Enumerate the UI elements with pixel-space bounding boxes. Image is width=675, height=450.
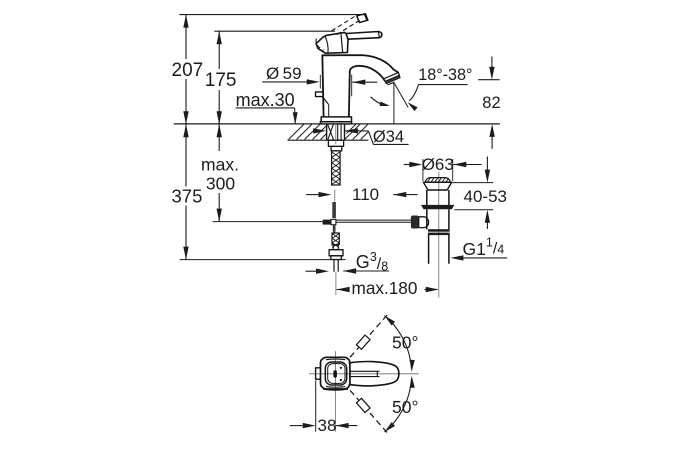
shank right edge	[344, 124, 346, 140]
shank inner lines	[337, 124, 339, 140]
svg-text:50°: 50°	[392, 397, 418, 417]
diam63 left ext	[422, 159, 424, 181]
G38 right arrow	[343, 268, 356, 273]
G114 arrow	[450, 255, 463, 260]
max30 leader line	[294, 108, 297, 124]
lower arc arrowhead at centerline	[410, 376, 415, 388]
supply centerline upper	[335, 121, 337, 144]
diam63 right arrow	[453, 162, 466, 167]
upper arc arrowhead at centerline	[410, 360, 415, 372]
faucet handle raised tip seam	[364, 14, 366, 20]
diam34 leader diagonal	[368, 131, 373, 145]
base flange lower	[320, 122, 351, 124]
housing crease	[341, 33, 343, 53]
plan body inner ring	[325, 362, 346, 385]
dimension 175 line upper	[218, 31, 220, 69]
plan lever dashed up	[350, 313, 389, 357]
shank cone lines	[328, 125, 334, 140]
110 left arrow tail	[306, 194, 319, 196]
backnut	[331, 146, 342, 151]
50deg upper arc	[385, 316, 411, 362]
40-53 upper arrowhead	[485, 170, 490, 183]
G38 left arrow tail	[306, 270, 317, 272]
svg-text:300: 300	[206, 173, 235, 193]
38 left arrow tail	[290, 425, 303, 427]
110 right arrow	[393, 192, 406, 197]
waste body lower	[427, 209, 449, 229]
dimension 175 line lower	[218, 90, 220, 124]
rod extension line	[213, 221, 323, 223]
housing crease 2	[325, 36, 328, 53]
waste plug cap hatched	[425, 178, 450, 183]
plan body bottom cap line	[326, 386, 345, 389]
18-38 leader arrowhead	[408, 102, 418, 111]
dimension 207 line upper	[185, 15, 187, 59]
plan vertical centerline	[335, 351, 337, 431]
plan lever marker down	[356, 398, 370, 412]
plan keyhole	[333, 370, 337, 378]
hose neck	[333, 245, 338, 250]
svg-text:max.180: max.180	[352, 278, 418, 298]
waste locknut dark band 1	[428, 229, 450, 232]
svg-text:Ø 59: Ø 59	[266, 64, 302, 83]
82 upper arrow line	[491, 57, 493, 77]
counter bottom line	[287, 139, 368, 141]
dimension 207 line lower	[185, 79, 187, 124]
38 right arrow tail	[336, 425, 358, 427]
faucet handle housing	[316, 32, 348, 53]
dimension 175 arrow down	[217, 111, 222, 124]
plan lever dashed down	[350, 390, 389, 434]
40-53 upper arrow line	[486, 157, 488, 171]
svg-text:Ø34: Ø34	[373, 128, 404, 146]
G38 nut upper	[329, 250, 343, 256]
popup rod inner line	[328, 105, 330, 117]
horizontal rod line B	[336, 221, 411, 223]
svg-text:Ø63: Ø63	[422, 155, 454, 174]
110 left arrow	[319, 192, 332, 197]
diam34 right arrow	[345, 128, 358, 133]
spout end face	[384, 73, 400, 82]
diam59 right arrow tail	[352, 81, 377, 83]
38 left ext line	[315, 381, 317, 432]
svg-text:175: 175	[205, 70, 237, 91]
diam59 right ext line	[351, 75, 353, 97]
plan horizontal centerline	[309, 373, 419, 375]
dimension 207 arrow down	[183, 111, 188, 124]
dimension 175 arrow up	[217, 31, 222, 44]
handle swing dashed arc	[316, 39, 324, 51]
svg-text:110: 110	[352, 185, 379, 204]
diam63 right ext	[452, 159, 454, 181]
18-38 leader arc	[409, 85, 418, 101]
base flange upper	[321, 117, 351, 122]
diam59 right arrow	[352, 80, 365, 85]
max180 right arrow tail	[425, 289, 438, 291]
svg-text:50°: 50°	[392, 333, 418, 353]
braided supply tube	[332, 151, 341, 185]
plan dot 1	[340, 367, 342, 369]
faucet body and spout outline	[322, 55, 398, 117]
faucet lever	[346, 32, 382, 40]
diam63 right arrow tail	[453, 164, 481, 166]
diam63 left arrow tail	[404, 164, 410, 166]
backnut washer	[328, 140, 343, 146]
diam34 left arrow tail	[313, 130, 317, 132]
spout outlet extension line	[393, 83, 395, 124]
max180 right arrow	[426, 287, 439, 292]
plan lever	[349, 362, 399, 386]
82 lower arrow line	[491, 128, 493, 149]
spray direction line	[394, 83, 408, 107]
diam34 underline	[373, 143, 408, 145]
waste seal ring	[421, 205, 454, 209]
label max30 underline	[236, 107, 295, 109]
waste rod knurled knob	[411, 216, 419, 229]
dimension 207 arrow up	[183, 15, 188, 28]
plan body outer	[321, 357, 350, 389]
375 bottom extension line	[180, 259, 346, 261]
dimension 175 top extension line	[214, 30, 335, 32]
diam59 underline-arrow tail	[262, 81, 307, 83]
38 left arrow	[303, 423, 316, 428]
counter top line	[174, 123, 500, 125]
cross fitting dark block	[323, 220, 331, 225]
max180 left arrow	[337, 287, 350, 292]
faucet handle raised dashed line B	[337, 20, 361, 35]
pull rod vertical	[332, 202, 336, 218]
dimension 375 line upper	[185, 124, 187, 186]
waste body upper	[427, 190, 449, 205]
dimension 207 top extension line	[179, 14, 364, 16]
svg-text:375: 375	[172, 186, 203, 207]
cross fitting white block	[331, 219, 336, 224]
svg-text:max.: max.	[201, 154, 239, 174]
110 right arrow tail	[393, 194, 417, 196]
faucet lever end seam	[378, 32, 379, 38]
supply centerline lower	[334, 190, 336, 202]
plan lever marker up	[356, 335, 370, 349]
hose hatched segment	[332, 233, 339, 247]
faucet handle raised tip	[357, 14, 368, 23]
svg-text:82: 82	[482, 94, 500, 112]
plan spout tab	[316, 368, 321, 379]
waste rod socket	[419, 217, 429, 228]
svg-text:max.30: max.30	[236, 90, 295, 110]
swivel arc left	[371, 97, 388, 106]
popup rod inside	[322, 97, 328, 105]
svg-text:207: 207	[172, 60, 204, 81]
dimension 375 arrow down	[183, 247, 188, 260]
counter hatching right	[345, 125, 369, 140]
50deg lower arc	[385, 386, 411, 432]
svg-text:38: 38	[318, 416, 337, 435]
upper arc arrowhead at dashed end	[385, 316, 396, 326]
popup knob	[316, 92, 324, 97]
max180 left arrow tail	[337, 289, 348, 291]
82 upper arrowhead	[489, 67, 494, 80]
waste flange	[423, 182, 451, 190]
waste centerline	[438, 172, 440, 298]
18-38 underline	[419, 84, 468, 86]
counter hatching left	[289, 125, 327, 140]
G114 underline	[455, 257, 507, 259]
38 right arrow	[336, 423, 349, 428]
aerator lip	[387, 82, 394, 85]
pull rod below cross	[333, 225, 336, 232]
dimension 375 line lower	[185, 206, 187, 260]
waste tailpipe	[429, 234, 449, 263]
plan bottom cap	[323, 389, 348, 390]
hose tail tube	[334, 260, 338, 272]
swivel arc left arrowhead	[380, 102, 390, 107]
svg-text:40-53: 40-53	[464, 187, 507, 206]
plan lever slot	[349, 371, 380, 376]
dimension max300 arrow down	[217, 209, 222, 222]
horizontal rod line A	[336, 219, 411, 221]
40-53 lower arrowhead	[485, 210, 490, 223]
40-53 lower arrow line	[486, 222, 488, 229]
lower arc arrowhead at dashed end	[385, 422, 396, 432]
82 lower arrowhead	[489, 124, 494, 137]
dimension max300 arrow up	[217, 124, 222, 137]
diam59 left arrow	[307, 79, 320, 84]
G38 left arrow	[316, 269, 329, 274]
dimension max300 line lower	[218, 193, 220, 222]
diam34 right arrow tail	[345, 130, 369, 132]
40-53 bottom ext line	[454, 209, 493, 211]
G38 label underline-tail	[343, 270, 389, 272]
82 top ref line	[478, 79, 500, 81]
40-53 top ext line	[452, 182, 494, 184]
diam34 left arrow	[313, 128, 326, 133]
plan body inner ring 2	[328, 364, 345, 384]
faucet handle raised dashed line A	[332, 16, 356, 31]
aerator hatched band	[385, 75, 400, 83]
dimension max300 line upper	[218, 124, 220, 151]
svg-text:18°-38°: 18°-38°	[418, 66, 472, 84]
plan body top cap line	[326, 358, 345, 361]
hose tail centerline	[335, 272, 337, 295]
plan dot 2	[340, 379, 342, 381]
G38 nut lower	[331, 256, 342, 260]
diam59 left ext line	[319, 75, 321, 89]
max30 leader arrow	[293, 112, 298, 124]
shank left edge	[326, 124, 328, 140]
dimension 375 arrow up	[183, 124, 188, 137]
diam63 left arrow	[409, 162, 422, 167]
waste locknut dark band 2	[428, 233, 450, 236]
